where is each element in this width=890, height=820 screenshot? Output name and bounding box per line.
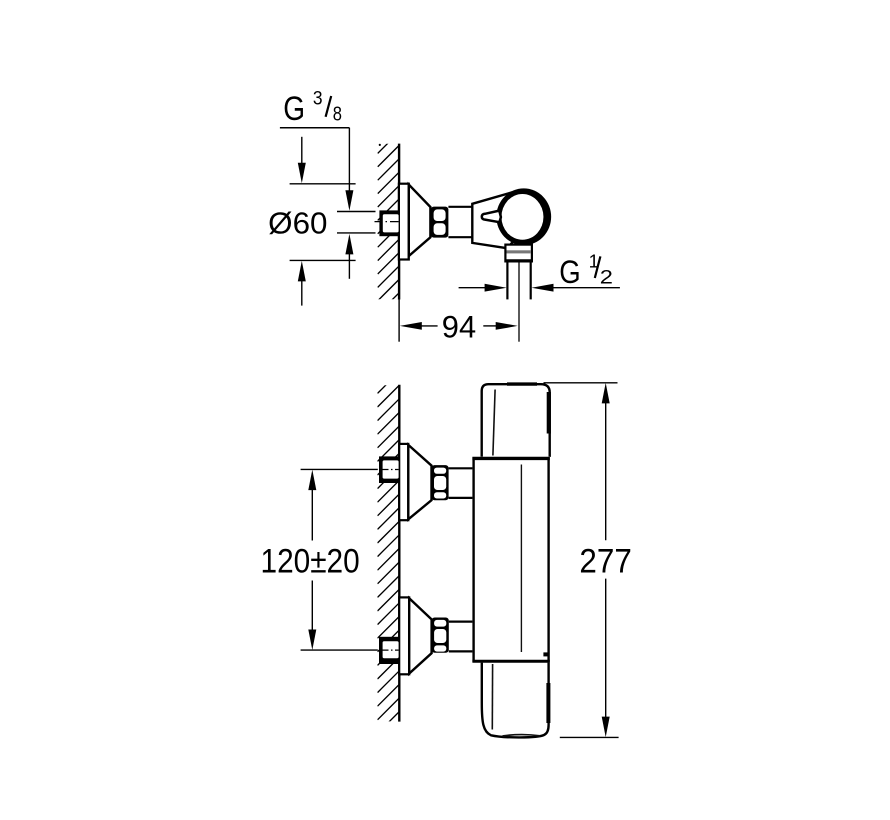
temperature pointer: [482, 211, 501, 223]
svg-text:G: G: [283, 90, 305, 128]
bottom cap accents: [546, 683, 550, 723]
upper escutcheon flange: [399, 444, 408, 520]
wall line (bottom view): [398, 385, 400, 722]
escutcheon flange (top view): [399, 184, 409, 260]
Ø60 dim lower arrow: [298, 261, 306, 282]
pipe between nut and body (top view): [448, 206, 472, 208]
Ø60 extension lines: [290, 183, 356, 185]
svg-text:2: 2: [600, 268, 613, 289]
lower escutcheon flange: [399, 597, 409, 674]
outlet pipe centerline / 94 extension: [518, 262, 520, 342]
120±20 lower extension line: [301, 649, 378, 651]
lower hex union nut: [432, 618, 449, 653]
body inner highlight line: [520, 465, 522, 653]
277 dimension line + arrows: [602, 383, 610, 404]
G1/2 dimension right arrow: [532, 284, 554, 292]
lower escutcheon cone: [409, 598, 431, 673]
centerline in square nut (top view): [375, 221, 399, 223]
G1/2 dimension left arrow: [459, 287, 486, 289]
wall dot: [379, 144, 381, 146]
label G1/2: [559, 250, 613, 290]
277 lower extension line: [560, 736, 619, 738]
upper supply square nut: [379, 456, 399, 483]
valve body (top view): [472, 193, 516, 249]
svg-text:277: 277: [579, 542, 631, 580]
94 dimension left arrow: [400, 322, 422, 330]
top cap (handle): [482, 384, 550, 457]
valve body (bottom view): [472, 457, 549, 663]
upper hex union nut: [432, 465, 449, 500]
wall hatching (top view): [378, 132, 399, 328]
lower supply square nut: [379, 637, 399, 664]
escutcheon cone (top view): [409, 185, 431, 256]
277 upper extension line: [544, 382, 618, 384]
120±20 dimension line + arrows: [308, 470, 316, 491]
G3/8 dim upper arrow: [348, 128, 350, 192]
G3/8 dim lower arrow: [345, 234, 353, 255]
94 dimension right arrow: [483, 325, 497, 327]
outlet nut below knob: [505, 245, 532, 262]
svg-text:120±20: 120±20: [261, 543, 360, 581]
knob ring outer (top view): [496, 188, 551, 245]
label G3/8: [283, 87, 342, 128]
lower pipe to body: [449, 620, 474, 622]
supply square nut G3/8 (top view): [379, 210, 399, 236]
wall extension line for 94 dim: [398, 300, 400, 342]
upper escutcheon cone: [408, 445, 431, 519]
top cap accents: [507, 382, 537, 385]
G3/8 extension lines: [337, 211, 376, 213]
wall line (top view): [398, 144, 400, 300]
svg-text:8: 8: [333, 103, 342, 125]
svg-text:G: G: [559, 253, 580, 290]
knob ring inner disc: [501, 194, 543, 240]
Ø60 dim upper arrow: [301, 137, 303, 165]
wall hatching (bottom view): [378, 372, 400, 734]
svg-text:94: 94: [442, 309, 476, 344]
hex union nut (top view): [431, 207, 449, 238]
body tick mark: [543, 652, 548, 656]
svg-text:3: 3: [313, 87, 323, 109]
G3/8 dimension leader line: [280, 127, 350, 129]
svg-text:Ø60: Ø60: [268, 207, 327, 241]
bottom cap (handle): [482, 662, 549, 737]
outlet pipe G1/2: [506, 261, 508, 299]
upper pipe to body: [449, 467, 474, 469]
120±20 upper extension line: [301, 468, 378, 470]
